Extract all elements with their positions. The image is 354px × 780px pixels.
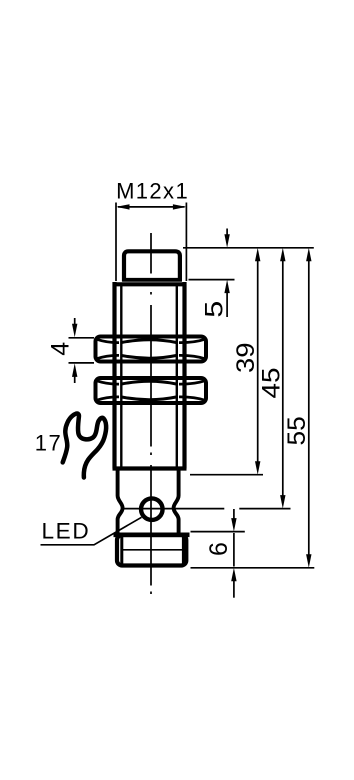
hex nut 2 bbox=[96, 378, 207, 403]
barrel left outer edge bbox=[112, 282, 116, 469]
dim 39 extension line (thread end) bbox=[190, 474, 263, 476]
dim 4 upper arrow stem bbox=[74, 318, 76, 326]
dim 4 lower arrow stem bbox=[74, 375, 76, 383]
extension line (housing top) for dims 39/45/55 bbox=[183, 247, 314, 249]
thread line right bbox=[176, 283, 178, 467]
dim 5 upper arrow stem bbox=[226, 229, 228, 239]
dim 4 upper arrowhead bbox=[72, 324, 77, 338]
dim 4 extension line (nut bottom) bbox=[69, 362, 95, 364]
M12x1 dimension line bbox=[118, 206, 185, 208]
dim 39 top arrowhead bbox=[255, 248, 260, 261]
dim 45 dimension line bbox=[282, 259, 284, 498]
dim 6 lower arrowhead bbox=[231, 568, 236, 582]
dim 6 lower arrow stem bbox=[233, 579, 235, 598]
wrench symbol bbox=[63, 414, 106, 478]
step: barrel top edge bbox=[113, 282, 187, 286]
svg-text:4: 4 bbox=[47, 342, 75, 356]
centerline bbox=[150, 233, 152, 594]
dim 5 lower arrow stem bbox=[226, 291, 228, 317]
dim 4 extension line (nut top) bbox=[69, 337, 95, 339]
svg-text:5: 5 bbox=[200, 301, 228, 318]
svg-text:55: 55 bbox=[283, 416, 311, 445]
dim 6 upper arrow stem bbox=[233, 509, 235, 521]
svg-text:39: 39 bbox=[232, 342, 260, 373]
dim 5 upper arrowhead bbox=[224, 234, 229, 248]
LED leader line bbox=[41, 517, 142, 545]
dim 45 extension line (segment 2) bbox=[239, 508, 290, 510]
dim 6 dimension line bbox=[233, 533, 235, 567]
barrel bottom edge bbox=[113, 466, 187, 470]
dim 5 extension line (cap bottom) bbox=[189, 279, 235, 281]
dim 55 bottom arrowhead bbox=[306, 554, 311, 568]
cap bottom edge bbox=[122, 278, 182, 282]
thread line left bbox=[120, 283, 122, 467]
connector top lip bbox=[114, 532, 190, 537]
dim 55 / dim 6 extension line (connector bottom) bbox=[191, 567, 315, 569]
svg-text:45: 45 bbox=[258, 368, 286, 399]
M12x1 extension line left bbox=[115, 203, 117, 282]
dim 5 lower arrowhead bbox=[224, 280, 229, 294]
connector (plug) bbox=[117, 535, 186, 566]
barrel right outer edge bbox=[182, 282, 186, 469]
dim 39 dimension line bbox=[257, 259, 259, 464]
dim 55 top arrowhead bbox=[306, 248, 311, 261]
neck (LED section) left edge bbox=[118, 470, 123, 535]
dim 6 extension line (connector top) bbox=[191, 531, 245, 533]
neck right edge bbox=[174, 470, 179, 535]
M12x1 extension line right bbox=[185, 203, 187, 282]
dim 55 dimension line bbox=[308, 259, 310, 557]
svg-text:17: 17 bbox=[35, 431, 62, 456]
M12x1 left arrowhead bbox=[116, 204, 130, 209]
dim 45 top arrowhead bbox=[280, 248, 285, 261]
sensor cap (sensing face) bbox=[124, 251, 180, 281]
svg-text:6: 6 bbox=[205, 542, 233, 556]
svg-text:LED: LED bbox=[42, 519, 91, 544]
LED circle bbox=[141, 498, 163, 520]
svg-text:M12x1: M12x1 bbox=[116, 179, 189, 204]
dim 45 bottom arrowhead bbox=[280, 495, 285, 509]
dim 39 bottom arrowhead bbox=[255, 461, 260, 475]
dim 4 lower arrowhead bbox=[72, 363, 77, 377]
hex nut 1 bbox=[96, 337, 207, 362]
M12x1 right arrowhead bbox=[173, 204, 187, 209]
LED crosshair horizontal / dim 45 extension line (segment 1) bbox=[121, 508, 224, 510]
dim 6 upper arrowhead bbox=[231, 518, 236, 532]
